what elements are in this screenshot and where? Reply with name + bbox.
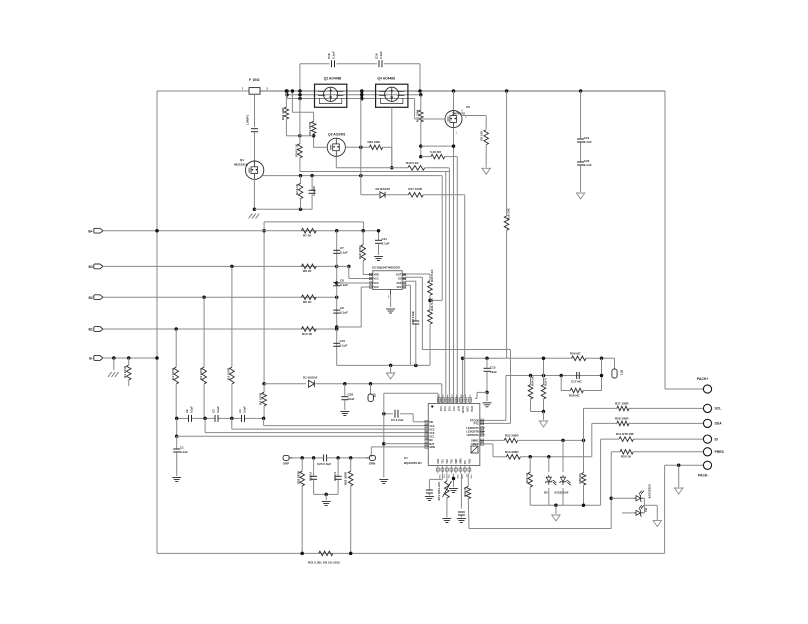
svg-text:R9 1K: R9 1K (303, 300, 312, 304)
svg-text:VDD: VDD (374, 273, 380, 277)
svg-text:0.1uF: 0.1uF (584, 163, 592, 167)
svg-text:SDA: SDA (715, 422, 723, 426)
svg-text:TS1: TS1 (442, 459, 445, 464)
svg-text:LEDCNTB: LEDCNTB (466, 430, 479, 434)
svg-text:R30 5.1K: R30 5.1K (430, 268, 434, 282)
svg-text:CD: CD (398, 277, 402, 281)
svg-text:R28 NC: R28 NC (569, 394, 581, 398)
svg-text:B2: B2 (88, 296, 92, 300)
svg-text:SRN: SRN (429, 445, 435, 449)
svg-text:VSS: VSS (396, 281, 401, 285)
svg-text:R1 100R: R1 100R (123, 365, 127, 378)
svg-text:C20 0.5uF: C20 0.5uF (317, 462, 331, 466)
svg-text:R21 0.001 1W 1% 2512: R21 0.001 1W 1% 2512 (308, 561, 340, 565)
svg-text:OUT: OUT (396, 273, 402, 277)
svg-text:PACK+: PACK+ (697, 377, 708, 381)
svg-text:DSG: DSG (470, 406, 473, 411)
svg-text:R4 100R: R4 100R (259, 392, 263, 405)
svg-text:R1 100R: R1 100R (171, 367, 175, 380)
svg-text:0.1uF: 0.1uF (216, 406, 220, 413)
svg-text:0.1uF: 0.1uF (180, 450, 188, 454)
svg-text:0.1uF: 0.1uF (340, 283, 348, 287)
svg-text:Q4 AO4468: Q4 AO4468 (378, 77, 396, 81)
svg-text:C8: C8 (340, 279, 344, 283)
svg-text:0.1uF: 0.1uF (332, 51, 336, 59)
svg-text:VC2: VC2 (448, 406, 451, 411)
svg-text:C13 0.5uF: C13 0.5uF (411, 311, 415, 325)
svg-text:0.1uF: 0.1uF (379, 51, 383, 59)
svg-text:C10: C10 (340, 339, 346, 343)
svg-text:Q1: Q1 (240, 158, 244, 162)
svg-text:PRES: PRES (715, 450, 725, 454)
svg-text:VC1: VC1 (429, 434, 435, 438)
svg-text:RT1 103J-A72: RT1 103J-A72 (437, 482, 441, 501)
svg-text:C5 2.2uF: C5 2.2uF (391, 418, 404, 422)
svg-text:0.1uF: 0.1uF (340, 251, 348, 255)
svg-text:R14 300R: R14 300R (308, 121, 312, 135)
svg-text:5.1K R6: 5.1K R6 (430, 150, 441, 154)
svg-text:VC5: VC5 (374, 277, 380, 281)
svg-text:C19 0.5: C19 0.5 (333, 471, 337, 481)
svg-text:F_DN2: F_DN2 (249, 78, 260, 82)
svg-text:0.1uF: 0.1uF (340, 344, 348, 348)
svg-text:SRP: SRP (455, 458, 458, 463)
svg-text:R43 5.1K: R43 5.1K (406, 161, 420, 165)
svg-text:D4: D4 (644, 508, 648, 512)
svg-text:VSS: VSS (437, 458, 440, 463)
svg-text:VSS: VSS (470, 474, 472, 479)
svg-text:D2 BAS16: D2 BAS16 (376, 187, 391, 191)
svg-text:VSS: VSS (469, 458, 472, 463)
svg-text:U1: U1 (404, 456, 408, 460)
svg-text:Q2 AO4468: Q2 AO4468 (324, 77, 342, 81)
svg-text:TS2: TS2 (446, 459, 449, 464)
svg-text:R13 200R: R13 200R (505, 450, 519, 454)
svg-text:0.1uF: 0.1uF (340, 311, 348, 315)
svg-text:NC: NC (464, 460, 467, 464)
svg-text:R19 100R: R19 100R (358, 245, 362, 259)
svg-text:VC2: VC2 (374, 285, 380, 289)
svg-text:LEDCNTC: LEDCNTC (466, 426, 479, 430)
svg-text:VC1: VC1 (396, 285, 402, 289)
svg-text:SMBD: SMBD (471, 442, 479, 446)
svg-text:TS3: TS3 (451, 459, 454, 464)
svg-text:R28 100R: R28 100R (615, 417, 629, 421)
svg-text:VC3: VC3 (374, 281, 380, 285)
svg-text:NC: NC (429, 438, 433, 442)
svg-text:0.1uF: 0.1uF (190, 406, 194, 413)
svg-text:R27 100R: R27 100R (615, 402, 629, 406)
svg-text:C18 0.5: C18 0.5 (308, 471, 312, 481)
svg-text:R15 1K: R15 1K (525, 472, 529, 483)
svg-text:0.1uF: 0.1uF (243, 406, 247, 413)
svg-text:R24 5.1K: R24 5.1K (295, 143, 299, 157)
svg-text:10nF: 10nF (348, 397, 355, 401)
svg-text:R42 10M: R42 10M (368, 140, 381, 144)
svg-text:C17 NC: C17 NC (571, 380, 583, 384)
svg-text:ID: ID (715, 437, 719, 441)
svg-text:R41 10M: R41 10M (415, 110, 419, 123)
svg-text:R17 100R: R17 100R (408, 187, 422, 191)
svg-text:10uF: 10uF (490, 370, 497, 374)
svg-text:VC4: VC4 (439, 406, 442, 411)
svg-text:CHG: CHG (466, 406, 469, 412)
svg-text:C9: C9 (340, 306, 344, 310)
svg-text:B+: B+ (88, 229, 92, 233)
svg-text:D3: D3 (373, 393, 377, 397)
svg-text:R29 NC: R29 NC (570, 351, 582, 355)
svg-text:0.1uF: 0.1uF (584, 140, 592, 144)
svg-text:R25 100R: R25 100R (297, 470, 301, 484)
svg-text:Q3 AO3401: Q3 AO3401 (328, 133, 346, 137)
svg-text:VC2: VC2 (429, 431, 435, 435)
svg-text:C4: C4 (238, 409, 242, 413)
svg-text:NC: NC (465, 474, 467, 478)
svg-text:C19: C19 (375, 53, 379, 59)
svg-text:R5 10K: R5 10K (479, 130, 483, 141)
svg-text:0.1uF: 0.1uF (382, 241, 390, 245)
svg-text:BQ40Z50-R1: BQ40Z50-R1 (404, 461, 422, 465)
svg-text:VC4: VC4 (429, 424, 435, 428)
svg-text:B1: B1 (88, 328, 92, 332)
svg-text:B-: B- (89, 357, 93, 361)
svg-text:SRN: SRN (460, 458, 463, 463)
svg-text:SRP: SRP (456, 474, 458, 479)
svg-text:SRP: SRP (283, 462, 289, 466)
svg-text:SCL: SCL (715, 407, 722, 411)
svg-text:VC1: VC1 (452, 406, 455, 411)
svg-text:C16: C16 (327, 53, 331, 59)
svg-text:AZ23C5V6: AZ23C5V6 (647, 484, 651, 499)
svg-text:R3 100R: R3 100R (227, 367, 231, 380)
svg-text:R23 0: R23 0 (544, 378, 548, 386)
svg-text:VC3: VC3 (443, 406, 446, 411)
svg-text:R10 1K: R10 1K (302, 332, 313, 336)
svg-text:VSS: VSS (438, 474, 440, 479)
svg-text:R31 5.1K: R31 5.1K (430, 297, 434, 311)
svg-text:SMBC: SMBC (471, 439, 479, 443)
svg-text:C3: C3 (212, 409, 216, 413)
svg-text:C7: C7 (340, 246, 344, 250)
svg-text:BT1: BT1 (620, 370, 624, 376)
svg-text:LEDCNTA: LEDCNTA (467, 433, 479, 437)
svg-text:R16 10M: R16 10M (281, 108, 285, 121)
svg-text:PACK: PACK (461, 406, 464, 413)
svg-text:R7 1K: R7 1K (303, 234, 312, 238)
svg-text:VC3: VC3 (429, 427, 435, 431)
svg-text:R12 1K: R12 1K (463, 487, 467, 496)
svg-text:R8 1K: R8 1K (303, 269, 312, 273)
svg-text:PACK-: PACK- (698, 474, 708, 478)
svg-text:R22 200R: R22 200R (505, 434, 519, 438)
svg-text:R26 100R: R26 100R (344, 471, 348, 485)
svg-text:AZ23C5V6: AZ23C5V6 (554, 491, 569, 495)
svg-text:R2 5.1K: R2 5.1K (295, 183, 299, 195)
svg-text:R11 NTC10K: R11 NTC10K (616, 432, 635, 436)
svg-text:B3: B3 (88, 265, 92, 269)
svg-text:U5: U5 (466, 105, 470, 109)
svg-text:D5: D5 (544, 491, 548, 495)
svg-text:PTC: PTC (474, 422, 479, 426)
svg-text:2N7002X: 2N7002X (452, 112, 466, 116)
svg-text:BAT: BAT (457, 406, 460, 411)
svg-text:PB: PB (429, 420, 433, 424)
svg-text:NDS331N: NDS331N (234, 163, 249, 167)
svg-text:R24 1K: R24 1K (531, 375, 535, 386)
svg-text:C2: C2 (185, 409, 189, 413)
svg-text:SRN: SRN (369, 462, 375, 466)
svg-text:U2 BQ294700DSGR: U2 BQ294700DSGR (372, 266, 401, 270)
svg-text:D1 BAS16: D1 BAS16 (303, 376, 318, 380)
svg-text:R38 1K: R38 1K (578, 473, 582, 484)
svg-text:LAMP1: LAMP1 (246, 115, 250, 125)
svg-text:R20 1K: R20 1K (621, 455, 632, 459)
svg-text:R2 100R: R2 100R (199, 367, 203, 380)
